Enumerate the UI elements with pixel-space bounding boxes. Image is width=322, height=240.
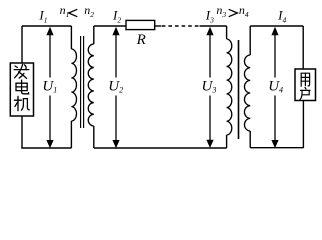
generator text 发	[14, 64, 29, 78]
wire top segment B (T1 to resistor)	[94, 25, 126, 27]
wire top segment D (dashed line to T2)	[200, 25, 227, 27]
wire user box bottom lead	[302, 101, 304, 149]
wire T2 secondary bottom lead	[249, 131, 251, 148]
wire top segment E (T2 to user box)	[250, 25, 303, 27]
svg-text:R: R	[136, 32, 146, 48]
wire T1 secondary top lead	[93, 26, 95, 44]
svg-text:n1: n1	[60, 3, 70, 19]
wire T2 primary bottom lead	[226, 135, 228, 148]
wire T1 secondary bottom lead	[93, 126, 95, 148]
transformer T2 secondary coil	[244, 55, 250, 131]
wire generator top lead	[21, 26, 23, 63]
transformer T1 secondary coil	[88, 44, 94, 126]
wire T2 secondary top lead	[249, 26, 251, 55]
svg-text:I1: I1	[38, 8, 47, 25]
svg-text:n3: n3	[216, 3, 226, 19]
wire T2 primary top lead	[226, 26, 228, 39]
svg-text:U1: U1	[42, 79, 57, 95]
wire top segment A (generator to T1 primary)	[22, 25, 71, 27]
wire T1 primary bottom lead	[70, 121, 72, 148]
resistor R	[126, 20, 155, 29]
transformer T1 core line 1	[80, 36, 82, 128]
wire resistor to dashed line	[155, 25, 162, 27]
wire T1 primary top lead	[70, 26, 72, 49]
wire dashed transmission line	[162, 25, 200, 27]
svg-text:n2: n2	[84, 3, 94, 19]
wire bottom segment loop1	[21, 147, 71, 149]
svg-text:I3: I3	[205, 8, 214, 25]
wire generator bottom lead	[21, 116, 23, 148]
generator text 机	[14, 96, 29, 110]
transformer T2 primary coil	[227, 39, 232, 135]
user box	[295, 69, 316, 101]
wire user box top lead	[302, 26, 304, 69]
voltage arrow U2 (double-headed)	[115, 33, 117, 142]
svg-text:U3: U3	[202, 79, 217, 95]
voltage arrow U4 (double-headed)	[274, 33, 276, 142]
svg-text:U4: U4	[268, 79, 283, 95]
user text 户	[300, 87, 310, 99]
svg-text:n4: n4	[239, 3, 249, 19]
svg-text:I4: I4	[277, 8, 286, 25]
generator text 电	[16, 80, 29, 94]
transformer T2 core line	[238, 40, 240, 139]
svg-text:U2: U2	[108, 79, 123, 95]
transformer T1 primary coil	[71, 49, 76, 121]
transformer T1 core line 2	[83, 36, 85, 128]
voltage arrow U3 (double-headed)	[209, 33, 211, 142]
user text 用	[301, 73, 309, 86]
voltage arrow U1 (double-headed)	[49, 33, 51, 142]
wire bottom segment loop3	[250, 147, 303, 149]
svg-text:I2: I2	[112, 8, 121, 25]
generator box	[10, 63, 33, 116]
wire bottom segment loop2	[94, 147, 227, 149]
